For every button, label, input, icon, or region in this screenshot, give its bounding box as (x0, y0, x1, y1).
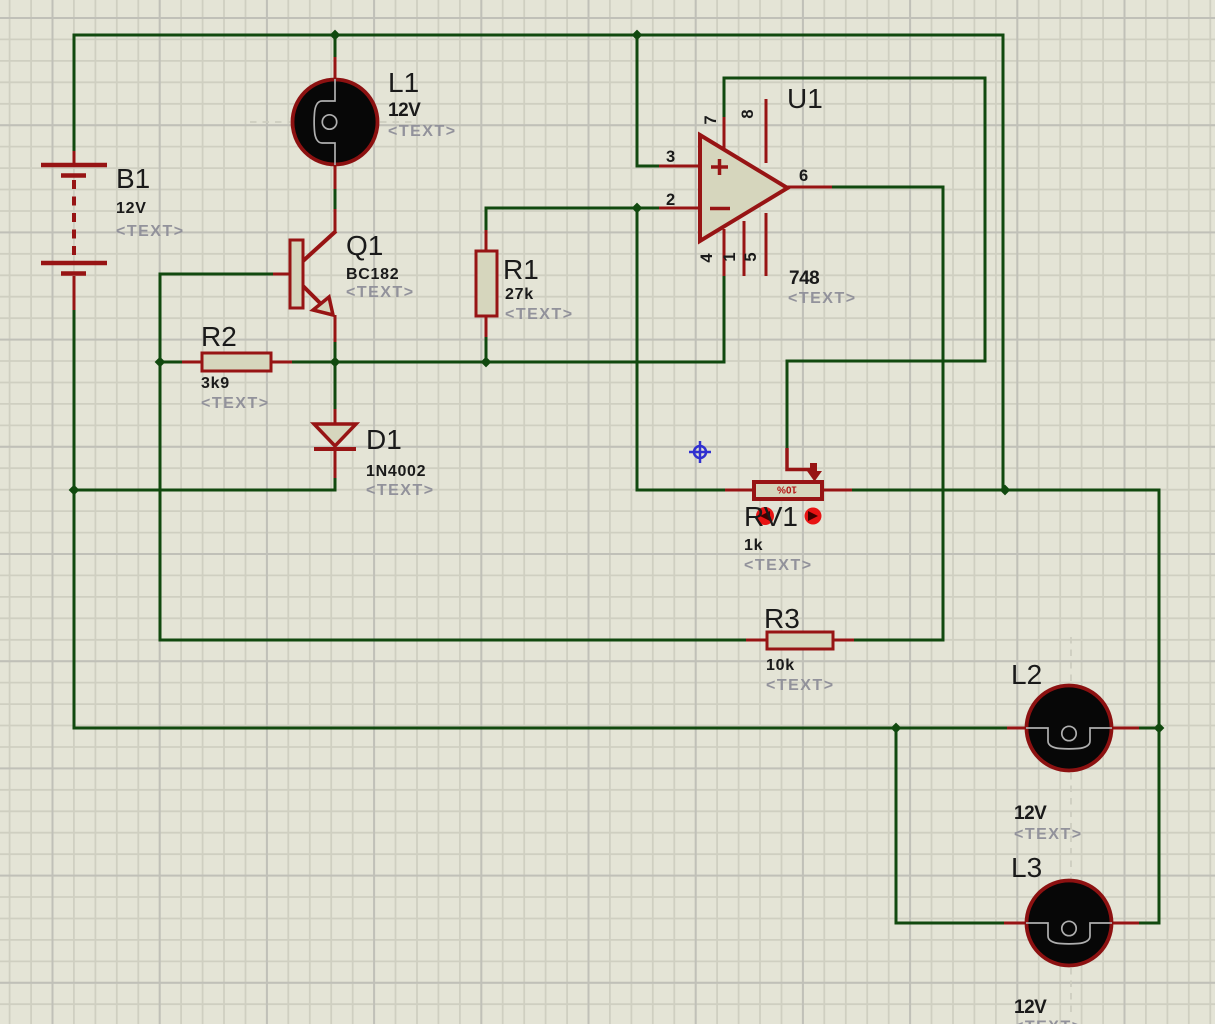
svg-text:2: 2 (666, 191, 675, 209)
svg-text:<TEXT>: <TEXT> (116, 223, 185, 240)
svg-text:3k9: 3k9 (201, 375, 230, 392)
diode D1 (334, 409, 337, 427)
svg-text:10k: 10k (766, 657, 795, 674)
resistor R1 (485, 230, 488, 253)
dashed axis L1 (250, 121, 290, 123)
junction R2 left (155, 357, 166, 368)
wire Q1 emitter to R2 row (334, 341, 337, 363)
battery B1 (41, 151, 107, 310)
lamp L3 pin stubs (1004, 922, 1028, 925)
svg-text:<TEXT>: <TEXT> (346, 284, 415, 301)
svg-text:5: 5 (742, 252, 760, 261)
wire pin7 right vertical (984, 78, 987, 363)
svg-text:10%: 10% (777, 484, 797, 495)
wire pin3 horizontal (637, 165, 660, 168)
U1 pin 6 (786, 186, 832, 189)
svg-text:R1: R1 (503, 254, 539, 285)
wire RV1 right wire (851, 489, 1161, 492)
wire right upper vertical (1002, 34, 1005, 491)
wire L2 right wire (1138, 727, 1159, 730)
U1 pin 4 (723, 229, 726, 276)
U1 plus sign (711, 159, 728, 175)
wire RV1 left wire (637, 489, 725, 492)
junction right vertical / L2 (1154, 723, 1165, 734)
RV1 wiper (787, 448, 813, 470)
lamp L2 (1026, 686, 1112, 771)
junction top rail / L1 (330, 30, 341, 41)
lamp L3 (1026, 881, 1112, 966)
U1 pin 5 (765, 213, 768, 276)
U1 pin 8 (765, 99, 768, 163)
svg-text:<TEXT>: <TEXT> (388, 123, 457, 140)
dashed axis L3 (1070, 968, 1072, 1013)
wire R2 row right (290, 361, 726, 364)
wire wiper net vertical (786, 361, 789, 448)
lamp L1 (293, 79, 378, 165)
svg-text:<TEXT>: <TEXT> (201, 395, 270, 412)
Q1 emitter arrow (313, 297, 333, 315)
svg-text:12V: 12V (1014, 803, 1047, 824)
svg-text:1N4002: 1N4002 (366, 463, 426, 480)
svg-text:<TEXT>: <TEXT> (1014, 826, 1083, 843)
wire R3 right wire (853, 639, 943, 642)
wire junction to D1 (334, 362, 337, 410)
svg-text:12V: 12V (116, 200, 147, 217)
wire pin7 riser (723, 77, 726, 119)
RV1 buttons (756, 507, 774, 525)
svg-text:R3: R3 (764, 603, 800, 634)
svg-text:BC182: BC182 (346, 266, 399, 283)
wire L3 left wire (896, 922, 1005, 925)
svg-text:<TEXT>: <TEXT> (1014, 1019, 1083, 1024)
svg-text:L1: L1 (388, 67, 419, 98)
wire top rail (73, 34, 1005, 37)
wire battery top lead (73, 35, 76, 151)
U1 pin 2 (659, 207, 701, 210)
U1 minus sign (710, 207, 730, 211)
svg-text:RV1: RV1 (744, 501, 798, 532)
wire pin2 stub (637, 207, 661, 210)
svg-text:<TEXT>: <TEXT> (744, 557, 813, 574)
dashed axis L2 (1070, 637, 1072, 683)
transistor Q1 (334, 209, 337, 233)
svg-text:27k: 27k (505, 286, 534, 303)
svg-text:748: 748 (789, 268, 819, 289)
wire R1 bottom to R2 row (485, 336, 488, 363)
svg-text:U1: U1 (787, 83, 823, 114)
svg-text:<TEXT>: <TEXT> (766, 677, 835, 694)
svg-text:1: 1 (721, 252, 739, 261)
wire pin6 vertical (942, 187, 945, 642)
wire D1 bottom bend (334, 477, 337, 492)
wire R1 top bend (485, 207, 488, 232)
resistor R3 (746, 639, 769, 642)
wire battery bottom lead / left rail (73, 310, 76, 730)
svg-text:<TEXT>: <TEXT> (788, 290, 857, 307)
U1 pin 1 (743, 221, 746, 276)
wire right vertical (1158, 490, 1161, 925)
wire R2 left stub wire (160, 361, 183, 364)
wire L1 top (334, 34, 337, 58)
wire R3 row left (160, 639, 747, 642)
junction emitter/R2/D1 (330, 357, 341, 368)
op-amp U1 (700, 135, 788, 241)
U1 pin 7 (723, 117, 726, 151)
svg-text:12V: 12V (1014, 997, 1047, 1018)
wire wiper net horizontal (786, 360, 986, 363)
svg-text:<TEXT>: <TEXT> (366, 482, 435, 499)
svg-text:<TEXT>: <TEXT> (505, 306, 574, 323)
wire pin6 output wire (831, 186, 945, 189)
svg-text:1k: 1k (744, 537, 763, 554)
junction left rail tee (69, 485, 80, 496)
svg-text:4: 4 (698, 253, 716, 263)
wire left mid vertical (159, 273, 162, 642)
junction R1 bottom (481, 357, 492, 368)
svg-text:6: 6 (799, 167, 808, 185)
wire bottom rail (73, 727, 1009, 730)
wire U1 pin4 drop (723, 275, 726, 362)
wire mid-left rail to D1 (73, 489, 337, 492)
svg-text:D1: D1 (366, 424, 402, 455)
wire L1 bottom to Q1 collector (334, 188, 337, 210)
svg-text:3: 3 (666, 148, 675, 166)
svg-text:R2: R2 (201, 321, 237, 352)
wire L3 left vertical (895, 728, 898, 925)
lamp L2 pin stubs (1007, 727, 1028, 730)
junction pin2 tee (632, 203, 643, 214)
svg-text:B1: B1 (116, 163, 150, 194)
U1 pin 3 (659, 165, 701, 168)
junction top rail / pin3 (632, 30, 643, 41)
svg-text:L3: L3 (1011, 852, 1042, 883)
wire pin2 net vertical (636, 208, 639, 492)
lamp L1 pin stubs (334, 57, 337, 80)
resistor R2 (182, 361, 204, 364)
junction right rail tee (1000, 485, 1011, 496)
wire pin3 vertical from top rail (636, 35, 639, 168)
svg-text:L2: L2 (1011, 659, 1042, 690)
svg-text:7: 7 (702, 115, 720, 124)
origin marker (689, 441, 711, 463)
wire pin7 top horizontal (723, 77, 987, 80)
wire Q1 base horizontal (159, 273, 274, 276)
potentiometer RV1 (725, 489, 756, 492)
svg-text:8: 8 (739, 109, 757, 118)
junction bottom rail / L3 (891, 723, 902, 734)
svg-text:12V: 12V (388, 100, 421, 121)
wire L3 right wire (1138, 922, 1161, 925)
wire R1 top to pin2 horizontal (486, 207, 638, 210)
svg-text:Q1: Q1 (346, 230, 383, 261)
